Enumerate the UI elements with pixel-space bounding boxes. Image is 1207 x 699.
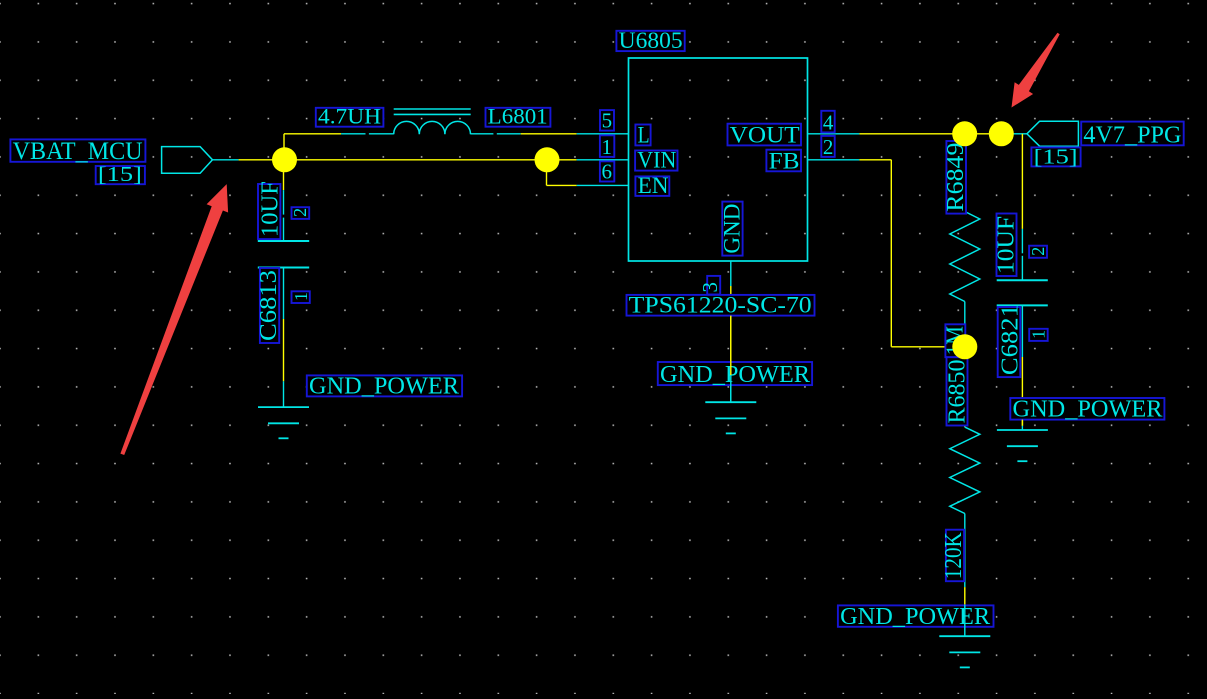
pin 6 [600,161,614,181]
pin 4 [821,111,834,133]
node C junction [952,121,977,146]
value 10UF [997,214,1017,277]
label R6850 [947,357,968,425]
label R6849 [946,141,966,214]
node B junction [535,147,560,172]
pin 2 [1029,246,1047,258]
wire [521,133,577,135]
ground [997,429,1048,431]
label C6821 [998,307,1021,377]
wire [964,198,966,212]
svg-text:1: 1 [291,292,311,301]
ground [939,635,990,637]
wire [964,140,966,198]
svg-text:R6850: R6850 [945,360,971,424]
value 120K [946,530,964,582]
svg-text:C6821: C6821 [997,304,1023,375]
svg-text:VBAT_MCU: VBAT_MCU [13,138,143,165]
svg-text:2: 2 [1028,247,1048,256]
wire [283,160,285,190]
pin name L [635,125,650,146]
svg-text:3: 3 [698,282,722,293]
wire [1021,426,1023,430]
wire [1021,134,1023,229]
label U6805 [616,31,684,51]
pin name EN [635,176,669,196]
svg-text:R6849: R6849 [943,143,969,212]
wire [577,159,629,161]
wire [547,184,577,186]
svg-text:1: 1 [602,135,613,159]
pin name VOUT [728,124,802,146]
pin 1 [600,135,614,157]
capacitor C6813 [258,240,309,242]
pin 1 [1029,329,1048,341]
svg-text:120K: 120K [941,532,967,580]
svg-text:U6805: U6805 [619,28,683,53]
pin 3 [707,276,720,295]
value 1M [945,324,965,357]
node E junction [952,334,977,359]
wire [964,605,966,637]
wire [964,587,966,605]
svg-text:L6801: L6801 [488,104,548,129]
pin 2 [821,136,834,157]
wire [369,133,394,135]
net GND_POWER [307,375,462,396]
svg-text:10UF: 10UF [994,216,1020,274]
net GND_POWER [658,362,812,385]
svg-text:VIN: VIN [637,148,676,173]
pin name FB [766,150,801,172]
ground [705,401,756,403]
svg-text:C6813: C6813 [256,270,282,341]
svg-text:10UF: 10UF [257,181,283,237]
wire [283,190,285,215]
wire [283,134,285,160]
wire [1021,229,1023,253]
svg-text:TPS61220-SC-70: TPS61220-SC-70 [629,293,812,318]
svg-text:[15]: [15] [1034,144,1078,168]
label [15] [96,166,145,184]
annotation arrow [1012,33,1060,108]
pin 1 [292,291,310,303]
svg-text:L: L [638,122,650,147]
wire [546,160,548,186]
wire [808,159,860,161]
svg-text:6: 6 [602,160,613,184]
wire [1001,133,1027,135]
wire [283,268,285,320]
pin 2 [292,207,310,219]
svg-text:GND_POWER: GND_POWER [1013,397,1163,423]
label L6801 [486,108,551,127]
wire [1021,305,1023,357]
svg-text:4: 4 [823,110,834,134]
port 4V7_PPG [1027,121,1079,146]
svg-text:5: 5 [602,109,613,133]
wire [964,302,966,347]
svg-text:VOUT: VOUT [730,122,800,147]
wire [213,159,239,161]
inductor L6801 [394,121,471,134]
svg-text:4V7_PPG: 4V7_PPG [1083,122,1181,148]
pin name GND [722,202,742,256]
ground [258,406,309,408]
wire [730,375,732,402]
resistor R6850 [950,427,980,513]
svg-text:FB: FB [769,148,800,173]
wire [859,159,891,161]
wire [730,261,732,286]
svg-text:4.7UH: 4.7UH [318,104,381,129]
svg-text:GND_POWER: GND_POWER [840,604,990,630]
svg-text:GND_POWER: GND_POWER [660,362,810,388]
net GND_POWER [1010,398,1164,420]
annotation arrow [120,184,228,455]
wire [730,375,732,402]
wire [471,133,494,135]
wire [890,160,892,347]
wire [577,184,629,186]
svg-text:[15]: [15] [98,162,142,186]
svg-text:2: 2 [290,208,310,217]
label 4V7_PPG [1081,122,1184,146]
pin 5 [600,110,614,131]
wire [730,286,732,375]
wire [239,159,547,161]
label VBAT_MCU [10,139,145,161]
op-amp U6805 [629,58,808,261]
wire [964,514,966,588]
capacitor C6821 [997,279,1048,281]
svg-text:EN: EN [638,173,669,198]
wire [891,346,965,348]
pin name VIN [635,151,677,171]
wire [1021,256,1023,280]
net GND_POWER [838,605,994,626]
wire [964,347,966,427]
port VBAT_MCU [162,147,213,174]
wire [808,133,860,135]
value TPS61220-SC-70 [627,295,815,316]
wire [283,381,285,407]
wire [283,218,285,241]
wire [859,133,1001,135]
wire [577,133,629,135]
wire [1021,357,1023,426]
label [15] [1031,147,1080,166]
svg-text:1: 1 [1029,330,1049,339]
wire [1021,420,1023,426]
svg-text:2: 2 [823,135,834,159]
label C6813 [260,268,279,343]
wire [547,159,577,161]
wire [283,319,285,381]
value 10UF [258,184,280,239]
wire [497,133,521,135]
svg-text:GND: GND [720,204,745,254]
node A junction [272,147,297,172]
wire [341,133,365,135]
resistor R6849 [950,212,980,302]
wire [284,133,341,135]
svg-text:GND_POWER: GND_POWER [309,373,459,399]
node D junction [989,121,1014,146]
value 4.7UH [316,108,384,127]
wire [730,316,732,375]
